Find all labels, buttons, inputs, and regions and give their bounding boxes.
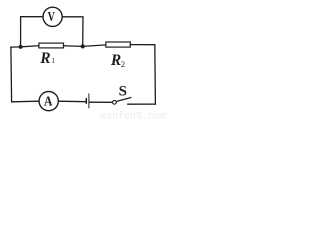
wire node A to R1 xyxy=(21,46,39,47)
wire ammeter to battery xyxy=(58,100,85,103)
svg-text:S: S xyxy=(119,84,127,100)
node A (junction dot) xyxy=(19,45,23,49)
watermark manfen5.com xyxy=(100,111,166,123)
svg-text:R: R xyxy=(110,52,121,69)
label R1 xyxy=(39,50,55,67)
wire battery to switch pivot xyxy=(89,101,112,103)
wire top-left: left vertical of voltmeter loop and top wire to voltmeter xyxy=(21,17,44,47)
svg-text:A: A xyxy=(44,92,53,108)
switch S xyxy=(113,84,131,105)
battery xyxy=(86,94,89,108)
wire R1 to node B to R2 xyxy=(64,45,106,47)
voltmeter V xyxy=(43,7,62,26)
resistor R1 xyxy=(39,43,64,48)
wire bottom-left to ammeter xyxy=(12,100,39,103)
wire R2 to top-right corner xyxy=(130,44,155,46)
svg-text:manfen5.com: manfen5.com xyxy=(100,111,166,121)
svg-text:R: R xyxy=(39,50,50,67)
node B (junction dot) xyxy=(81,44,85,48)
wire top-right: from voltmeter to corner and down to node B xyxy=(62,17,83,47)
wire right vertical xyxy=(154,45,157,104)
svg-text:1: 1 xyxy=(51,56,55,65)
label R2 xyxy=(110,52,125,69)
wire left vertical xyxy=(10,47,13,102)
resistor R2 xyxy=(106,42,130,47)
wire switch to bottom-right corner xyxy=(128,103,156,105)
ammeter A xyxy=(39,92,58,111)
wire middle-left elbow to node A xyxy=(11,46,21,48)
svg-text:2: 2 xyxy=(121,59,125,69)
svg-text:V: V xyxy=(48,8,55,24)
